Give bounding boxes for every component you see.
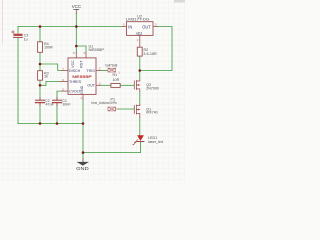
wire Q1 source to LED [139, 118, 141, 136]
svg-text:47uF: 47uF [46, 102, 55, 106]
pin labels (dark slate) [69, 24, 151, 93]
wire bottom rail [18, 123, 83, 125]
node R3-C2-THRES [39, 84, 42, 87]
wire R3 bottom [39, 80, 41, 100]
svg-text:ADJ: ADJ [136, 31, 142, 36]
LM317 ADJ pin [139, 35, 141, 47]
VCC symbol [74, 8, 79, 10]
555 TRIG pin [96, 70, 100, 72]
LED LED1 [133, 135, 144, 145]
resistor R2 [137, 47, 142, 56]
svg-text:toPin8: toPin8 [105, 64, 117, 68]
wire R1 to Q2 gate [120, 84, 134, 86]
svg-text:10R: 10R [113, 78, 120, 82]
LM317 OUT pin [153, 26, 157, 28]
svg-text:1k: 1k [44, 75, 48, 79]
wire node to Q2 drain [139, 71, 141, 80]
wire 555 GND pin down [82, 99, 84, 124]
svg-text:GND: GND [76, 166, 89, 171]
wire Q2 source to Q1 drain [139, 92, 141, 106]
wire VCC rail [18, 26, 123, 28]
wire LM317 OUT loop [142, 27, 173, 71]
jumper toPin8 pad [107, 68, 116, 72]
svg-text:10nF: 10nF [62, 102, 71, 106]
svg-text:1: 1 [118, 70, 120, 74]
capacitor C3 [12, 31, 23, 38]
window corner bar top right [174, 0, 185, 2]
wire THRES branch [40, 81, 61, 85]
regulator U2 LM317T-DG body [127, 22, 154, 36]
555 RST pin [85, 52, 87, 58]
wire P1 to Q1 gate [118, 108, 134, 110]
555 THRES pin [60, 80, 68, 82]
svg-text:from_ArduinoOrPin: from_ArduinoOrPin [91, 101, 117, 105]
wire left column (C3) [17, 27, 19, 34]
svg-text:7: 7 [62, 67, 64, 71]
node bottom rail C1 [56, 122, 59, 125]
svg-text:NE555P: NE555P [72, 74, 92, 79]
wire C1 bottom [56, 103, 58, 124]
svg-text:GND: GND [80, 85, 84, 93]
faint grid [0, 0, 185, 182]
svg-text:THRES: THRES [69, 80, 82, 84]
wire R4-R3 [39, 52, 41, 70]
555 DISCH pin [62, 70, 68, 72]
resistor R4 [38, 42, 43, 53]
ground symbol [77, 162, 89, 166]
svg-text:VCC: VCC [72, 4, 82, 9]
wire RST branch [76, 46, 86, 53]
555 GND pin [82, 94, 84, 99]
svg-text:DISCH: DISCH [69, 69, 81, 73]
wire DISCH branch [40, 64, 62, 71]
svg-text:VCC: VCC [71, 60, 75, 68]
svg-text:NE555P: NE555P [89, 48, 105, 52]
555 CVOLT pin [62, 90, 68, 92]
wire C2 bottom [39, 103, 41, 124]
wire OUT to R1 [100, 84, 111, 86]
svg-text:8: 8 [73, 51, 75, 55]
svg-text:5: 5 [62, 88, 64, 92]
svg-text:IRF740: IRF740 [146, 111, 157, 115]
node GND horizontal [82, 151, 85, 154]
svg-text:IN: IN [128, 24, 132, 29]
node R4-R3-DISCH [39, 63, 42, 66]
capacitor C2 [36, 98, 45, 106]
wire GND horizontal [83, 152, 141, 154]
svg-text:1: 1 [137, 38, 139, 42]
ground symbol pin [82, 159, 84, 163]
svg-text:2: 2 [155, 22, 157, 26]
resistor R3 [38, 71, 43, 81]
node bottom rail C2 [39, 122, 42, 125]
svg-text:1u: 1u [24, 37, 28, 41]
wire LED to GND rail [140, 142, 142, 152]
node rail-555VCC [75, 25, 78, 28]
svg-text:4: 4 [83, 51, 85, 55]
555 VCC pin [75, 52, 77, 58]
svg-text:6: 6 [62, 78, 64, 82]
resistor R1 [111, 84, 120, 88]
svg-text:RST: RST [80, 60, 84, 68]
svg-text:2: 2 [99, 66, 101, 70]
wire R2 to node [139, 56, 141, 71]
svg-text:2N7000: 2N7000 [146, 86, 159, 90]
svg-text:100R: 100R [44, 46, 53, 50]
VCC symbol stem [75, 9, 77, 13]
svg-text:LM317T-DG: LM317T-DG [126, 17, 150, 22]
wire GND stem [82, 124, 84, 163]
svg-text:TRIG: TRIG [86, 69, 95, 73]
wire CVOLT branch [57, 91, 62, 100]
svg-text:3: 3 [99, 81, 101, 85]
svg-text:OUT: OUT [87, 84, 95, 88]
wire TRIG to jumper [100, 70, 107, 72]
555 OUT pin [96, 84, 100, 86]
transistor Q2 [134, 80, 140, 92]
pin numbers (light red) [62, 22, 157, 99]
node rail-R4 [39, 25, 42, 28]
LM317 IN pin [123, 26, 127, 28]
wire 555 VCC drop [75, 27, 77, 53]
node bottom rail GND [82, 122, 85, 125]
svg-text:R1: R1 [113, 73, 118, 77]
svg-text:1: 1 [80, 96, 82, 100]
svg-text:laser_led: laser_led [148, 140, 163, 144]
node R2-Q2 [139, 69, 142, 72]
timer IC U1 NE555P body [68, 58, 96, 95]
connector P1 pad [108, 107, 118, 111]
svg-text:OUT: OUT [142, 24, 151, 29]
transistor Q1 [134, 105, 140, 118]
node VCC-RST [75, 45, 78, 48]
frame border left [2, 0, 4, 44]
capacitor C1 [53, 98, 62, 106]
svg-text:3.6-15R: 3.6-15R [143, 52, 157, 56]
wire VCC stem [75, 13, 77, 27]
wire R4 top [39, 27, 41, 42]
svg-text:3: 3 [123, 22, 125, 26]
